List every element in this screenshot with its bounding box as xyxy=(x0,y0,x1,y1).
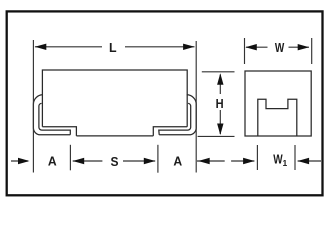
S dimension line left xyxy=(73,160,103,162)
H bottom tick xyxy=(198,135,235,137)
L dimension extension line right xyxy=(195,41,197,173)
body pedestal bottom line xyxy=(76,135,153,137)
left terminal lead inner surface xyxy=(39,103,70,134)
end view terminal shape xyxy=(258,99,297,136)
L dimension line right segment xyxy=(125,46,195,48)
border frame xyxy=(7,11,323,195)
H arrowhead up xyxy=(217,73,223,85)
extension line S/A right xyxy=(157,145,159,173)
svg-text:H: H xyxy=(216,96,224,111)
W1 outside arrowhead (pointing right) xyxy=(243,158,255,164)
W1 left outside arrow tail xyxy=(231,160,254,162)
L dimension line left segment xyxy=(35,46,102,48)
W dimension line left xyxy=(246,46,268,48)
H dimension line lower xyxy=(219,110,221,134)
W arrowhead left xyxy=(245,44,256,50)
W extension line right xyxy=(311,38,313,64)
extension line A/S left xyxy=(69,145,71,171)
A outside arrowhead (far left, pointing right) xyxy=(18,158,30,164)
L dimension extension line left xyxy=(32,40,34,173)
W1 outside arrowhead (pointing left) xyxy=(298,158,310,164)
S arrowhead right xyxy=(144,158,156,164)
svg-text:S: S xyxy=(111,154,119,169)
right terminal lead outer surface xyxy=(159,95,196,135)
L arrowhead right xyxy=(183,44,195,50)
end view body outline xyxy=(245,71,311,136)
W1 extension line left xyxy=(256,145,258,170)
S arrowhead left xyxy=(73,158,85,164)
H arrowhead down xyxy=(217,124,223,136)
L arrowhead left xyxy=(35,44,47,50)
H top tick xyxy=(202,71,235,73)
W dimension line right xyxy=(289,46,310,48)
svg-text:L: L xyxy=(109,40,117,55)
svg-text:1: 1 xyxy=(283,158,288,168)
A left outside arrow tail xyxy=(11,160,28,162)
svg-text:W: W xyxy=(275,40,285,55)
right terminal lead inner surface xyxy=(159,103,191,134)
svg-text:A: A xyxy=(173,154,182,169)
body bottom recess floor left + step xyxy=(42,127,76,136)
A outside arrowhead (pointing left at right lead line) xyxy=(198,158,210,164)
S dimension line right xyxy=(123,160,155,162)
left terminal lead outer surface xyxy=(33,95,70,135)
W1 extension line right xyxy=(294,145,296,170)
body bottom recess floor right + step xyxy=(153,127,187,136)
A right outside arrow tail xyxy=(197,160,225,162)
svg-text:A: A xyxy=(48,154,57,169)
capacitor body outline (side view) xyxy=(42,70,187,127)
W arrowhead right xyxy=(298,44,310,50)
H dimension line upper xyxy=(219,75,221,95)
W1 right outside arrow tail xyxy=(298,160,321,162)
W extension line left xyxy=(244,38,246,64)
